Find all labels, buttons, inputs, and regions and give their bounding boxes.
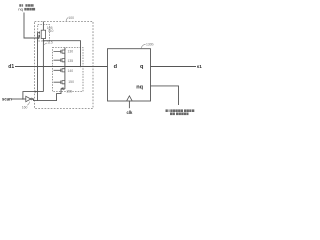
svg-text:115: 115 bbox=[47, 40, 53, 44]
svg-text:d1: d1 bbox=[8, 64, 14, 70]
svg-text:155: 155 bbox=[66, 90, 72, 94]
svg-text:scan: scan bbox=[2, 97, 12, 102]
svg-text:135: 135 bbox=[68, 59, 74, 63]
svg-text:160: 160 bbox=[22, 105, 28, 109]
svg-text:nq: nq bbox=[136, 84, 143, 90]
svg-text:110: 110 bbox=[48, 29, 54, 33]
svg-text:130b: 130b bbox=[146, 42, 154, 46]
svg-text:140: 140 bbox=[68, 69, 74, 73]
svg-text:nq: nq bbox=[18, 7, 22, 12]
svg-text:d: d bbox=[114, 64, 118, 70]
svg-text:100: 100 bbox=[68, 16, 74, 20]
svg-text:clk: clk bbox=[127, 110, 133, 115]
svg-text:130: 130 bbox=[68, 49, 74, 53]
svg-text:150: 150 bbox=[68, 80, 74, 84]
svg-text:s1: s1 bbox=[197, 64, 203, 69]
svg-text:q: q bbox=[140, 64, 144, 70]
